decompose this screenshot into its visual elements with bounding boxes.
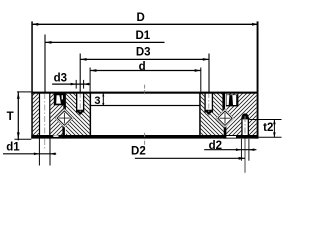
- bolt through-hole walls left outer ring: [39, 93, 40, 135]
- bottom seal notch left: [53, 135, 58, 137]
- axis centerline bottom segment: [144, 133, 146, 150]
- tapped hole d3 left inner ring: [76, 93, 84, 110]
- svg-text:D1: D1: [135, 30, 150, 42]
- raceway diamond right: [216, 109, 235, 128]
- svg-text:d: d: [139, 61, 146, 73]
- bore recess step line: [91, 105, 200, 106]
- d3 extension ticks: [75, 80, 77, 89]
- T extension lines: [17, 91, 31, 93]
- ring gap bar left upper: [63, 93, 66, 110]
- dimension T line: [17, 91, 19, 140]
- dimension d2 line: [204, 149, 256, 151]
- outer ring left section hatch (right of bolt hole): [50, 93, 63, 135]
- svg-text:d1: d1: [6, 141, 20, 153]
- dimension d1 line: [3, 153, 56, 155]
- dimension d3 line: [52, 83, 90, 85]
- outer ring left section hatch (left of bolt hole): [33, 93, 39, 135]
- svg-text:t2: t2: [263, 122, 273, 134]
- dimension D1 line: [45, 41, 164, 43]
- inner ring left section hatch: [66, 93, 90, 135]
- seal cavity left (black with white seal profile): [54, 93, 65, 105]
- roller diamond right: [218, 111, 232, 125]
- top face line: [31, 92, 258, 94]
- roller diamond left: [57, 111, 71, 125]
- bottom face band: [31, 135, 258, 139]
- dimension D3 line: [80, 58, 209, 60]
- d2 extension ticks: [240, 139, 242, 161]
- axis centerline top segment: [144, 85, 146, 95]
- tapped hole d3 right inner ring: [204, 93, 213, 110]
- d3 right hole centerline (dash-dot): [208, 93, 210, 117]
- bore wall left: [90, 93, 92, 135]
- d2 hole centerline (dash-dot): [244, 116, 246, 138]
- d extension lines: [89, 68, 91, 92]
- ring gap bar right lower: [224, 126, 227, 139]
- dimension D line: [32, 23, 258, 25]
- svg-text:T: T: [7, 111, 14, 123]
- svg-text:d2: d2: [209, 140, 222, 152]
- bottom seal notch right: [226, 136, 236, 138]
- svg-text:D: D: [137, 12, 145, 24]
- roller cross left: [59, 113, 70, 124]
- outer ring right section hatch: [226, 93, 256, 135]
- part right edge merged with D extension line: [257, 21, 259, 138]
- D1 extension line: [44, 35, 46, 93]
- d3 hole centerline (dash-dot): [79, 93, 81, 117]
- dimension t2 line: [273, 120, 275, 138]
- svg-text:D3: D3: [136, 47, 151, 59]
- dimension d line: [90, 70, 201, 72]
- bolt hole centerline left (dash-dot): [44, 93, 46, 151]
- seal cavity right (white with black seal profile): [226, 95, 239, 107]
- D3 extension lines: [79, 54, 81, 93]
- inner ring right section hatch: [201, 93, 224, 135]
- bore wall right: [199, 93, 201, 135]
- part left edge merged with D extension line: [31, 21, 33, 138]
- svg-text:D2: D2: [131, 146, 146, 158]
- ring gap bar left lower: [62, 126, 65, 139]
- ring gap bar right upper: [222, 93, 225, 110]
- dimension t2 extension lines: [249, 119, 281, 121]
- tapped hole d2 right outer ring (from bottom): [242, 119, 248, 136]
- recess depth mini dimension line "3": [102, 94, 104, 106]
- roller cross right: [220, 113, 231, 124]
- d1 extension ticks: [38, 136, 40, 166]
- svg-text:3: 3: [94, 95, 100, 107]
- raceway diamond left: [55, 109, 74, 128]
- svg-text:d3: d3: [54, 72, 67, 84]
- dimension D2 line: [135, 157, 245, 159]
